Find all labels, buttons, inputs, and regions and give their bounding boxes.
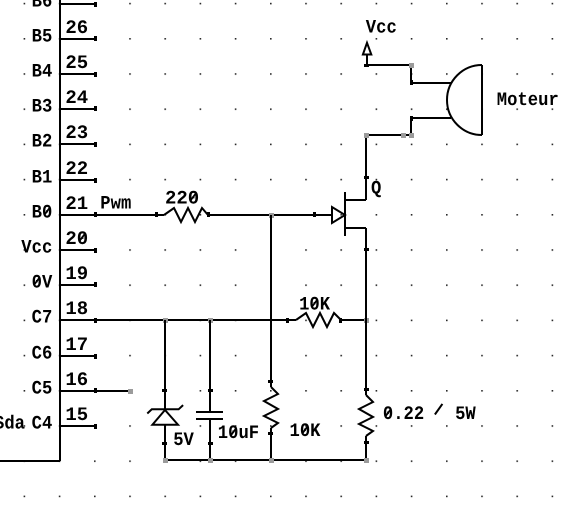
resistor R2 10K (horizontal) (296, 313, 341, 327)
svg-text:19: 19 (65, 263, 88, 285)
svg-text:C7: C7 (32, 306, 53, 328)
wire motor bottom to drain of Q (366, 118, 411, 178)
junction node at R1 output (269, 213, 274, 218)
svg-text:B4: B4 (32, 60, 53, 82)
svg-text:Vcc: Vcc (21, 236, 52, 258)
svg-text:B6: B6 (32, 0, 53, 12)
IC connector box edge (0, 0, 60, 461)
resistor R3 10K (vertical) (264, 387, 278, 428)
svg-text:220: 220 (165, 187, 199, 209)
svg-text:C4: C4 (32, 412, 53, 434)
svg-text:18: 18 (65, 298, 88, 320)
svg-text:16: 16 (65, 369, 88, 391)
pin stub Sda C4 (60, 425, 95, 427)
resistor R4 0.22 / 5W (vertical) (365, 228, 367, 395)
transistor Q (MOSFET symbol) (315, 214, 332, 216)
pin stub B2 (60, 143, 95, 145)
zener diode D1 5V (164, 320, 166, 409)
bottom rail wire (165, 459, 366, 461)
resistor R1 220 (horizontal) (164, 208, 208, 222)
svg-text:Moteur: Moteur (497, 89, 559, 111)
svg-text:B1: B1 (32, 166, 53, 188)
svg-text:C6: C6 (32, 342, 53, 364)
svg-text:B2: B2 (32, 130, 53, 152)
svg-text:0.22: 0.22 (383, 403, 424, 425)
svg-text:22: 22 (65, 158, 88, 180)
svg-text:Sda: Sda (0, 412, 25, 434)
svg-text:17: 17 (65, 334, 88, 356)
svg-text:Vcc: Vcc (366, 16, 397, 38)
junction nodes on C7 net (163, 318, 168, 323)
svg-text:25: 25 (65, 52, 88, 74)
pin stub B0 (60, 214, 95, 216)
wire from node down to R3 10K (270, 215, 272, 387)
wire Vcc to motor top (367, 65, 411, 83)
junction nodes on motor-drain wire (364, 133, 369, 138)
svg-text:Q: Q (371, 177, 381, 199)
svg-text:21: 21 (65, 193, 88, 215)
svg-text:5V: 5V (173, 429, 194, 451)
svg-text:23: 23 (65, 122, 88, 144)
svg-text:15: 15 (65, 404, 88, 426)
power symbol Vcc (arrow) (363, 43, 371, 55)
pin stub B1 (60, 179, 95, 181)
pin stub B3 (60, 108, 95, 110)
pin stub C7 (60, 319, 95, 321)
svg-text:24: 24 (65, 87, 88, 109)
pin stub B4 (60, 73, 95, 75)
pin stub B6 (60, 3, 95, 5)
pin stub C5 (60, 390, 95, 392)
wire C7 net (pin 18) (60, 319, 366, 321)
svg-text:0V: 0V (32, 271, 53, 293)
svg-text:B3: B3 (32, 95, 53, 117)
svg-text:26: 26 (65, 17, 88, 39)
wire B0/Pwm to gate of Q (95, 214, 315, 216)
svg-text:Pwm: Pwm (100, 193, 131, 215)
svg-text:5W: 5W (455, 403, 476, 425)
motor M1 (Moteur) (411, 83, 451, 118)
capacitor C1 10uF (209, 320, 211, 460)
svg-text:20: 20 (65, 228, 88, 250)
svg-text:10uF: 10uF (218, 422, 259, 444)
pin stub Vcc (60, 249, 95, 251)
svg-text:B5: B5 (32, 25, 53, 47)
junction nodes on bottom rail (163, 458, 168, 463)
svg-text:C5: C5 (32, 377, 53, 399)
pin stub C6 (60, 355, 95, 357)
pin stub 0V (60, 284, 95, 286)
svg-text:B0: B0 (32, 201, 53, 223)
wire C5 stub extension (pin 16) (95, 390, 130, 392)
pin stub B5 (60, 38, 95, 40)
